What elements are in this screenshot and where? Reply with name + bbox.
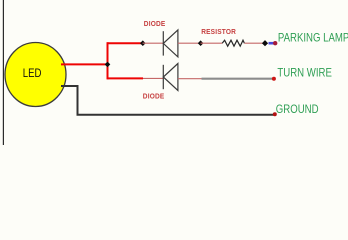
wire resistor to junction xyxy=(244,42,265,44)
wire diode D1 to junction xyxy=(178,42,201,44)
wire bottom branch xyxy=(108,77,144,79)
junction before parking-lamp terminal xyxy=(262,40,268,46)
terminal dot TURN WIRE xyxy=(272,77,276,81)
wire TURN WIRE (gray) xyxy=(202,78,273,80)
terminal dot GROUND xyxy=(273,112,277,116)
wire to diode D2 xyxy=(143,77,163,79)
junction before resistor xyxy=(198,40,204,46)
svg-text:GROUND: GROUND xyxy=(276,103,319,116)
junction at branch split xyxy=(105,62,111,68)
svg-text:DIODE: DIODE xyxy=(144,21,166,28)
wire junction to diode D1 xyxy=(143,42,164,44)
resistor R1 xyxy=(222,40,244,46)
wire LED anode to junction xyxy=(61,63,108,65)
svg-text:PARKING LAMP: PARKING LAMP xyxy=(278,32,348,45)
diode D2 (bottom) xyxy=(163,64,178,91)
svg-text:LED: LED xyxy=(23,67,42,80)
svg-text:TURN WIRE: TURN WIRE xyxy=(277,67,331,80)
wire top branch xyxy=(108,42,143,44)
diode D1 (top) xyxy=(163,30,178,57)
wire junction to resistor xyxy=(201,42,223,44)
junction before top diode xyxy=(140,40,146,46)
wire diode D2 to turn wire xyxy=(178,78,202,80)
LED lamp xyxy=(5,43,66,107)
wire parking-lamp stub (blue) xyxy=(269,42,275,45)
wire GROUND (black) xyxy=(61,86,274,115)
svg-text:RESISTOR: RESISTOR xyxy=(201,29,236,36)
terminal dot PARKING LAMP xyxy=(273,41,277,45)
svg-text:DIODE: DIODE xyxy=(143,94,165,101)
wire vertical branch riser xyxy=(107,42,109,79)
